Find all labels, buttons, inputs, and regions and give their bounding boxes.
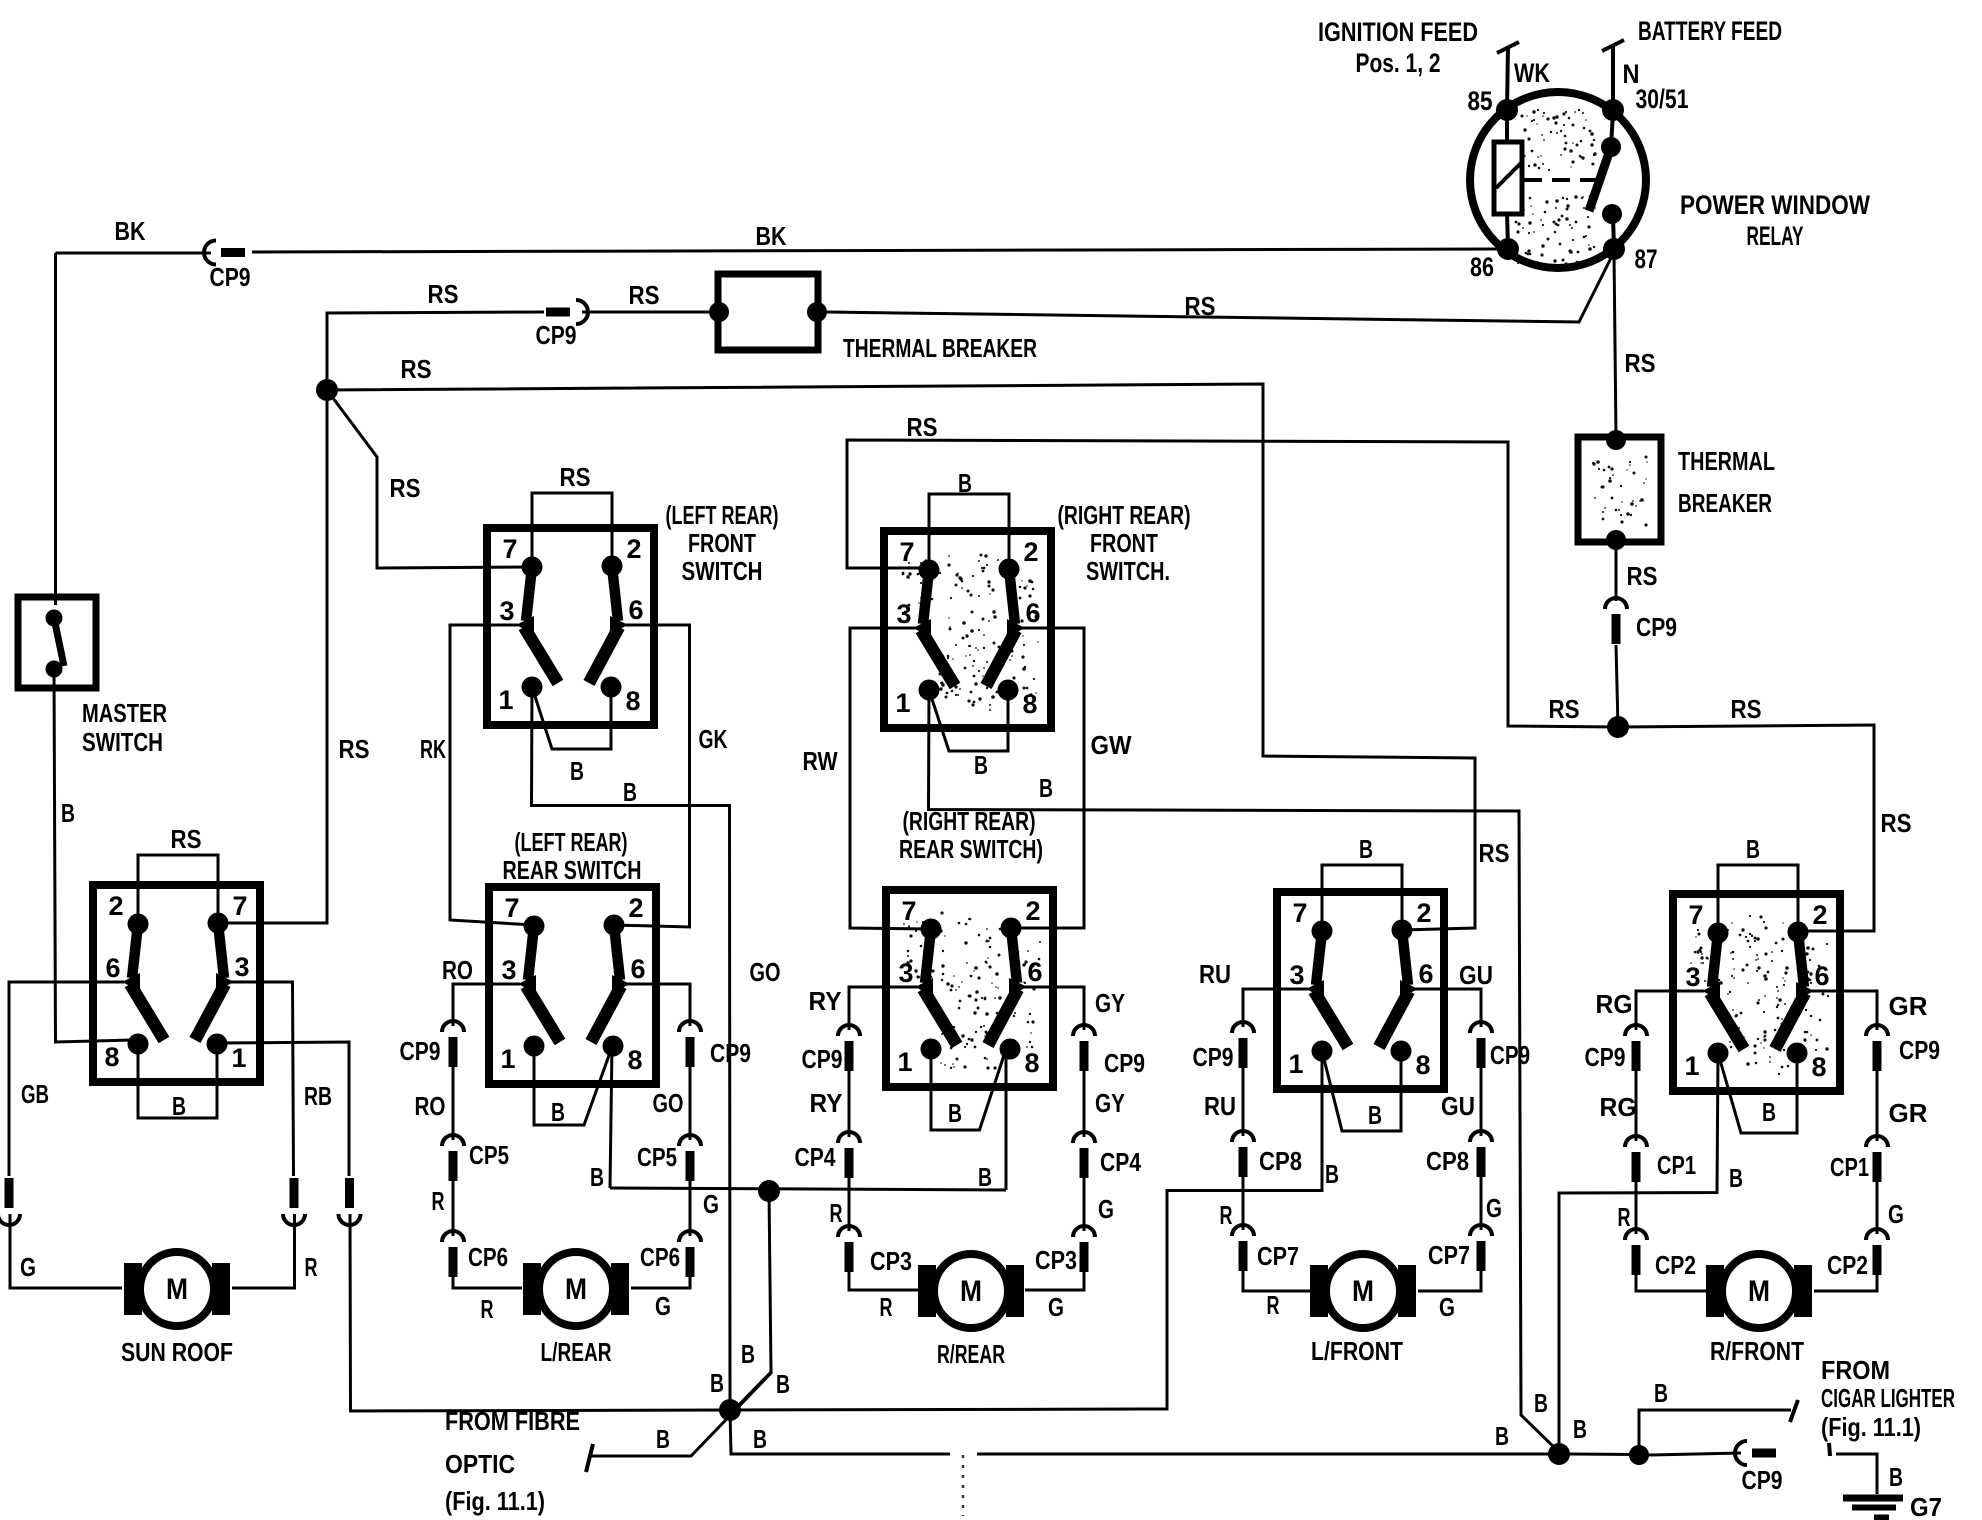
label CP6 [468, 1242, 508, 1272]
wire B front pin1 tap to junction [532, 687, 731, 1404]
svg-text:RS: RS [1185, 291, 1216, 321]
ignition feed label [1318, 17, 1478, 78]
wire RS thermal breaker to relay 87 [827, 252, 1614, 322]
label CP5 [469, 1140, 509, 1170]
svg-text:RELAY: RELAY [1747, 221, 1804, 251]
label GR upper [1889, 991, 1928, 1021]
wire RW front pin3 to rear pin7 [850, 628, 931, 929]
svg-text:CP6: CP6 [468, 1242, 508, 1272]
svg-text:REAR SWITCH): REAR SWITCH) [899, 834, 1043, 864]
svg-text:RU: RU [1199, 959, 1231, 989]
label B [974, 750, 988, 780]
label GK [699, 724, 728, 754]
label RS [1185, 291, 1216, 321]
svg-text:85: 85 [1468, 86, 1493, 116]
svg-text:R: R [481, 1294, 494, 1324]
svg-text:B: B [590, 1162, 604, 1192]
svg-text:B: B [958, 468, 972, 498]
svg-text:RS: RS [1627, 561, 1658, 591]
svg-text:B: B [570, 756, 584, 786]
motor M l/rear [523, 1252, 629, 1326]
svg-text:R: R [432, 1186, 445, 1216]
svg-text:RS: RS [560, 462, 591, 492]
relay terminal 30/51 [1602, 84, 1689, 121]
svg-text:(RIGHT REAR): (RIGHT REAR) [1058, 500, 1191, 530]
svg-text:CP9: CP9 [536, 320, 577, 350]
label CP3 [870, 1246, 912, 1276]
bottom bracket B r/front switch [1718, 1053, 1797, 1133]
svg-text:CP9: CP9 [1193, 1042, 1234, 1072]
svg-text:GO: GO [750, 957, 781, 987]
right rear rear switch label [899, 806, 1043, 864]
svg-text:MASTER: MASTER [82, 698, 167, 728]
label RS [1625, 348, 1656, 378]
svg-text:RS: RS [1731, 694, 1762, 724]
connector CP1 on GR wire [1866, 1136, 1888, 1182]
label N [1623, 59, 1640, 89]
master block top bracket RS [138, 855, 218, 924]
svg-text:GU: GU [1441, 1091, 1475, 1121]
svg-text:G: G [1439, 1292, 1455, 1322]
label R under motor wire [880, 1292, 893, 1322]
label CP8 [1259, 1146, 1302, 1176]
label RU [1204, 1091, 1236, 1121]
label RW [803, 746, 838, 776]
label B [623, 777, 637, 807]
label B [1729, 1163, 1743, 1193]
svg-text:RS: RS [428, 279, 459, 309]
label G under motor wire [1439, 1292, 1455, 1322]
svg-text:GY: GY [1095, 1088, 1125, 1118]
svg-text:CP5: CP5 [637, 1142, 677, 1172]
svg-text:POWER WINDOW: POWER WINDOW [1680, 190, 1870, 220]
label B [1762, 1097, 1776, 1127]
label B [1654, 1378, 1668, 1408]
svg-text:2: 2 [1416, 898, 1431, 928]
svg-text:CP3: CP3 [1035, 1245, 1077, 1275]
master switch S1 [18, 597, 96, 688]
label RB [304, 1081, 332, 1111]
label CP5 [637, 1142, 677, 1172]
connector on GB wire [0, 1178, 20, 1225]
wire B master switch to pin 8 of master block [54, 672, 134, 1042]
label R [830, 1198, 843, 1228]
motor M sun roof [124, 1252, 230, 1326]
label CP2 [1827, 1250, 1868, 1280]
label G [1888, 1199, 1904, 1229]
wire RB master pin 1 to B junction [217, 1042, 726, 1411]
connector on R wire [283, 1178, 305, 1225]
label CP9 [710, 1038, 751, 1068]
svg-text:86: 86 [1470, 252, 1494, 282]
label L/REAR [541, 1337, 612, 1367]
relay terminal 85 [1468, 86, 1519, 121]
r/front switch [1672, 894, 1841, 1091]
wire RS CP9 to junction [1616, 645, 1618, 727]
wire RS CP9 to thermal breaker [582, 311, 714, 314]
label CP6 [640, 1242, 680, 1272]
svg-text:3: 3 [898, 958, 913, 988]
scan fold mark [962, 1455, 965, 1516]
svg-text:(Fig. 11.1): (Fig. 11.1) [445, 1486, 545, 1516]
power window relay U1 [1470, 92, 1646, 268]
svg-text:2: 2 [108, 891, 123, 921]
label CP9 [536, 320, 577, 350]
svg-text:G: G [20, 1252, 36, 1282]
wire GU l/front pin6 to motor [1418, 989, 1481, 1291]
svg-text:(Fig. 11.1): (Fig. 11.1) [1821, 1412, 1921, 1442]
connector CP8 on RU wire [1232, 1131, 1254, 1177]
svg-text:RK: RK [420, 734, 446, 764]
svg-text:RS: RS [1625, 348, 1656, 378]
wire RU l/front pin3 to motor [1243, 989, 1313, 1291]
thermal breaker right label [1678, 446, 1775, 518]
svg-text:G: G [1486, 1193, 1502, 1223]
label R under motor wire [481, 1294, 494, 1324]
connector CP9 on BK wire [204, 241, 245, 265]
svg-text:SWITCH: SWITCH [682, 556, 763, 586]
connector CP7 on RU wire [1232, 1225, 1254, 1271]
svg-text:FRONT: FRONT [688, 528, 756, 558]
wire B to cigar lighter junction [1570, 1453, 1636, 1457]
label RS right side [1881, 808, 1912, 838]
wire B l/front pin1 tap to junction line [730, 1051, 1322, 1410]
label CP1 [1657, 1150, 1696, 1180]
svg-text:7: 7 [1292, 898, 1307, 928]
wire GO rear pin6 to l/rear motor [631, 984, 690, 1288]
wire R master pin 3 to sun roof motor [230, 982, 295, 1288]
connector CP9 on GY wire [1073, 1025, 1095, 1071]
wire RS corner to CP9 [327, 312, 544, 390]
junction B central [719, 1399, 741, 1421]
connector CP9 below right thermal breaker [1605, 598, 1627, 644]
connector CP7 on GU wire [1470, 1225, 1492, 1271]
label RS [428, 279, 459, 309]
svg-text:R: R [830, 1198, 843, 1228]
wire RS junction to right rear front switch pin 7 [847, 440, 1618, 727]
connector CP3 on RY wire [838, 1226, 860, 1272]
label RS right of junction [1731, 694, 1762, 724]
svg-text:RY: RY [809, 986, 842, 1016]
svg-text:B: B [1762, 1097, 1776, 1127]
svg-text:7: 7 [504, 893, 519, 923]
thermal breaker (top) [709, 274, 827, 350]
label RS near l/front switch [1479, 838, 1510, 868]
svg-text:G: G [1098, 1194, 1114, 1224]
wire from fibre optic [586, 1372, 772, 1472]
label R [305, 1252, 318, 1282]
svg-text:RW: RW [803, 746, 838, 776]
svg-text:2: 2 [626, 534, 641, 564]
svg-text:7: 7 [1688, 900, 1703, 930]
label CP9 [1636, 612, 1677, 642]
wire RS breaker to CP9 [1615, 544, 1618, 601]
label GB [21, 1079, 49, 1109]
svg-text:FROM FIBRE: FROM FIBRE [445, 1406, 580, 1436]
left rear front switch label [666, 500, 779, 586]
svg-text:8: 8 [104, 1042, 119, 1072]
svg-text:M: M [166, 1273, 188, 1306]
svg-text:B: B [1368, 1100, 1382, 1130]
wire GW front pin6 to rear pin2 [1011, 628, 1084, 928]
label RS [629, 280, 660, 310]
connector CP4 on GY wire [1073, 1132, 1095, 1178]
label B [958, 468, 972, 498]
svg-text:CP9: CP9 [400, 1036, 441, 1066]
svg-text:6: 6 [105, 953, 120, 983]
label RY [810, 1088, 843, 1118]
connector CP9 on RS wire [546, 300, 588, 324]
svg-text:G: G [1888, 1199, 1904, 1229]
label R/REAR [937, 1339, 1005, 1369]
connector CP5 on GO wire [679, 1135, 701, 1181]
svg-text:CP7: CP7 [1257, 1241, 1299, 1271]
connector CP4 on RY wire [838, 1132, 860, 1178]
label GW [1091, 730, 1132, 760]
junction RS distribution [316, 379, 338, 401]
label RU upper [1199, 959, 1231, 989]
wire RS down to master switch pin 7 [218, 390, 327, 923]
svg-text:CP9: CP9 [1490, 1040, 1530, 1070]
svg-text:L/FRONT: L/FRONT [1311, 1336, 1403, 1366]
svg-text:RS: RS [390, 473, 421, 503]
svg-text:RS: RS [629, 280, 660, 310]
label R [1220, 1200, 1233, 1230]
svg-text:B: B [656, 1424, 670, 1454]
svg-text:GK: GK [699, 724, 728, 754]
connector CP9 on GR wire [1866, 1025, 1888, 1071]
svg-text:R: R [305, 1252, 318, 1282]
svg-text:CP3: CP3 [870, 1246, 912, 1276]
connector CP9 on GU wire [1470, 1022, 1492, 1068]
label RS [560, 462, 591, 492]
svg-text:CP9: CP9 [802, 1044, 843, 1074]
svg-text:1: 1 [1288, 1049, 1303, 1079]
svg-text:GB: GB [21, 1079, 49, 1109]
top bracket RS left rear front switch [532, 493, 612, 567]
svg-text:BK: BK [756, 221, 787, 251]
svg-text:SUN ROOF: SUN ROOF [121, 1337, 233, 1367]
connector CP2 on RG wire [1625, 1229, 1647, 1275]
svg-text:RG: RG [1600, 1092, 1637, 1122]
label CP9 [210, 262, 251, 292]
label B [61, 798, 75, 828]
(right rear) front switch [883, 531, 1052, 728]
label CP9 [802, 1044, 843, 1074]
top bracket B l/front switch [1322, 865, 1402, 931]
label R [432, 1186, 445, 1216]
label B near ground [1889, 1462, 1903, 1492]
label RK [420, 734, 446, 764]
svg-text:B: B [1534, 1388, 1548, 1418]
label B [1325, 1159, 1339, 1189]
label CP1 [1830, 1152, 1869, 1182]
ground G7 [1829, 1443, 1903, 1518]
label CP2 [1655, 1250, 1696, 1280]
label GY [1095, 1088, 1125, 1118]
wire RS diagonal to left rear front switch pin 7 [327, 390, 532, 568]
svg-text:B: B [974, 750, 988, 780]
svg-text:8: 8 [1022, 689, 1037, 719]
label CP9 [1899, 1035, 1940, 1065]
master switch block [92, 885, 261, 1082]
label RS above right rear front switch [907, 412, 938, 442]
connector CP9 bottom right [1735, 1441, 1776, 1465]
label B [948, 1098, 962, 1128]
svg-text:RO: RO [415, 1091, 446, 1121]
svg-text:RS: RS [907, 412, 938, 442]
label GO upper [750, 957, 781, 987]
svg-text:RY: RY [810, 1088, 843, 1118]
svg-text:BK: BK [115, 216, 146, 246]
label G [1098, 1194, 1114, 1224]
thermal breaker (right) [1578, 430, 1661, 550]
svg-text:CP9: CP9 [1742, 1465, 1783, 1495]
svg-text:87: 87 [1635, 244, 1658, 274]
svg-text:CP2: CP2 [1655, 1250, 1696, 1280]
ignition feed wire WK [1497, 42, 1519, 110]
(left rear) rear switch [488, 887, 657, 1084]
wire RG r/front pin3 to motor [1636, 991, 1706, 1291]
svg-text:RU: RU [1204, 1091, 1236, 1121]
svg-text:(RIGHT REAR): (RIGHT REAR) [903, 806, 1036, 836]
right rear front switch label [1058, 500, 1191, 586]
svg-text:6: 6 [1027, 957, 1042, 987]
svg-text:L/REAR: L/REAR [541, 1337, 612, 1367]
svg-text:3: 3 [896, 599, 911, 629]
svg-text:GW: GW [1091, 730, 1132, 760]
(right rear) rear switch [885, 890, 1054, 1087]
bottom bracket B l/front switch [1322, 1051, 1401, 1131]
svg-text:G: G [655, 1291, 671, 1321]
svg-text:1: 1 [498, 685, 513, 715]
wire BK from master switch to relay 86 [56, 249, 1498, 253]
connector CP5 on RO wire [442, 1135, 464, 1181]
label B [551, 1097, 565, 1127]
svg-text:B: B [172, 1091, 186, 1121]
connector CP9 on RU wire [1232, 1022, 1254, 1068]
connector CP6 on GO wire [679, 1231, 701, 1277]
label RS [171, 824, 202, 854]
bottom bracket B left rear rear switch [534, 1046, 612, 1125]
svg-text:M: M [1748, 1275, 1770, 1308]
label RG [1600, 1092, 1637, 1122]
label BK right [756, 221, 787, 251]
master block bottom bracket B [138, 1044, 217, 1118]
svg-text:GR: GR [1889, 1098, 1928, 1128]
wire B r/front pin1 tap to bottom junction [1559, 1053, 1718, 1450]
svg-text:CP8: CP8 [1259, 1146, 1302, 1176]
svg-text:Pos. 1, 2: Pos. 1, 2 [1356, 48, 1441, 78]
svg-text:CP4: CP4 [1100, 1147, 1141, 1177]
label B [1039, 773, 1053, 803]
svg-text:2: 2 [1812, 900, 1827, 930]
svg-text:M: M [565, 1273, 587, 1306]
svg-text:6: 6 [1025, 598, 1040, 628]
label CP3 [1035, 1245, 1077, 1275]
svg-text:8: 8 [1024, 1048, 1039, 1078]
svg-text:8: 8 [1415, 1050, 1430, 1080]
svg-text:1: 1 [897, 1047, 912, 1077]
svg-text:8: 8 [1811, 1052, 1826, 1082]
svg-text:2: 2 [1025, 896, 1040, 926]
label GU upper [1459, 960, 1493, 990]
svg-text:SWITCH: SWITCH [82, 727, 163, 757]
svg-text:B: B [948, 1098, 962, 1128]
svg-text:B: B [551, 1097, 565, 1127]
svg-text:BREAKER: BREAKER [1678, 488, 1772, 518]
labels B around central junction [656, 1339, 790, 1454]
svg-text:B: B [61, 798, 75, 828]
svg-text:B: B [1573, 1414, 1587, 1444]
bottom bracket B right rear rear switch [931, 1049, 1006, 1130]
bottom bracket B right rear front switch [929, 690, 1008, 751]
label SUN ROOF [121, 1337, 233, 1367]
label RS [390, 473, 421, 503]
label R/FRONT [1710, 1336, 1804, 1366]
wire RK front pin3 to rear pin7 [450, 625, 534, 925]
wire GY rear pin6 to r/rear motor [1025, 987, 1084, 1290]
label WK [1514, 58, 1550, 88]
svg-text:FRONT: FRONT [1090, 528, 1158, 558]
svg-text:CP5: CP5 [469, 1140, 509, 1170]
wire B rear pin8 tap down to B bus [1005, 1049, 1008, 1190]
svg-text:CP2: CP2 [1827, 1250, 1868, 1280]
wire B central junction down and right bus [730, 1410, 1555, 1454]
svg-text:(LEFT REAR): (LEFT REAR) [666, 500, 779, 530]
svg-text:2: 2 [628, 893, 643, 923]
label CP9 [1742, 1465, 1783, 1495]
label CP9 [1490, 1040, 1530, 1070]
svg-text:REAR SWITCH: REAR SWITCH [503, 855, 642, 885]
label BK left [115, 216, 146, 246]
wire B rear pin8 tap to B bus [610, 1046, 612, 1188]
svg-text:THERMAL: THERMAL [1678, 446, 1775, 476]
svg-text:3: 3 [501, 955, 516, 985]
svg-text:CP4: CP4 [795, 1142, 836, 1172]
label GO [653, 1088, 684, 1118]
thermal breaker label [843, 333, 1037, 363]
relay terminal 87 [1603, 238, 1658, 274]
label CP4 [1100, 1147, 1141, 1177]
from fibre optic label [445, 1406, 580, 1516]
connector CP6 on RO wire [442, 1231, 464, 1277]
svg-text:SWITCH.: SWITCH. [1086, 556, 1170, 586]
svg-text:THERMAL BREAKER: THERMAL BREAKER [843, 333, 1037, 363]
svg-text:FROM: FROM [1821, 1355, 1890, 1385]
svg-text:CP1: CP1 [1830, 1152, 1869, 1182]
wire RS junction down right side to r/front switch pin 2 [1618, 725, 1874, 931]
label CP9 [1585, 1042, 1626, 1072]
svg-text:B: B [1889, 1462, 1903, 1492]
label CP4 [795, 1142, 836, 1172]
wire RY rear pin3 to r/rear motor [849, 987, 919, 1290]
label B [172, 1091, 186, 1121]
svg-text:R: R [1267, 1290, 1280, 1320]
svg-text:3: 3 [1685, 962, 1700, 992]
svg-text:G7: G7 [1910, 1492, 1942, 1520]
svg-text:1: 1 [500, 1044, 515, 1074]
svg-text:6: 6 [1814, 961, 1829, 991]
label GY upper [1095, 988, 1125, 1018]
label G [20, 1252, 36, 1282]
label RY upper [809, 986, 842, 1016]
label CP7 [1428, 1240, 1470, 1270]
svg-text:R: R [880, 1292, 893, 1322]
svg-text:GO: GO [653, 1088, 684, 1118]
svg-text:6: 6 [1418, 959, 1433, 989]
label R under motor wire [1267, 1290, 1280, 1320]
